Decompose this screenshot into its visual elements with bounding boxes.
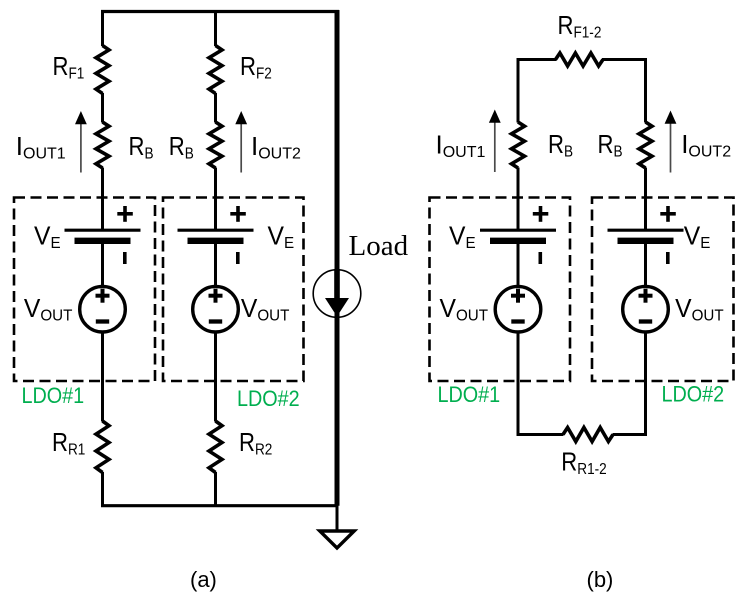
svg-text:(a): (a): [190, 567, 217, 592]
svg-text:(b): (b): [587, 567, 614, 592]
svg-text:LDO#2: LDO#2: [662, 383, 725, 407]
svg-text:LDO#2: LDO#2: [237, 387, 300, 411]
svg-text:LDO#1: LDO#1: [438, 383, 501, 407]
svg-text:LDO#1: LDO#1: [22, 384, 85, 408]
svg-text:Load: Load: [349, 230, 409, 262]
